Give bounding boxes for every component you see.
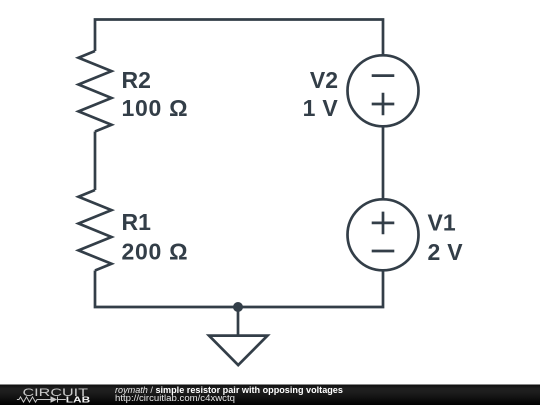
wire between R2 and R1 bbox=[94, 132, 97, 191]
svg-text:R1: R1 bbox=[122, 209, 152, 235]
svg-text:V1: V1 bbox=[428, 210, 456, 236]
CircuitLab logo resistor-diode wire glyph bbox=[17, 397, 66, 403]
svg-text:R2: R2 bbox=[122, 67, 151, 93]
node junction dot bbox=[233, 302, 243, 312]
svg-text:2 V: 2 V bbox=[428, 239, 464, 265]
voltage source V2 bbox=[348, 55, 419, 126]
footer bar background bbox=[0, 385, 540, 405]
resistor R1 bbox=[79, 190, 112, 271]
wire bottom net bbox=[95, 271, 383, 308]
svg-text:1 V: 1 V bbox=[303, 95, 339, 121]
svg-text:200 Ω: 200 Ω bbox=[122, 239, 189, 265]
svg-text:100 Ω: 100 Ω bbox=[122, 95, 189, 121]
wire between V2 and V1 bbox=[382, 127, 385, 200]
voltage source V1 bbox=[348, 199, 419, 270]
svg-text:LAB: LAB bbox=[66, 396, 91, 405]
ground bbox=[209, 307, 268, 365]
resistor R2 bbox=[79, 51, 112, 132]
svg-text:http://circuitlab.com/c4xwctq: http://circuitlab.com/c4xwctq bbox=[115, 393, 235, 404]
wire top net bbox=[95, 20, 383, 57]
svg-text:V2: V2 bbox=[310, 67, 338, 93]
